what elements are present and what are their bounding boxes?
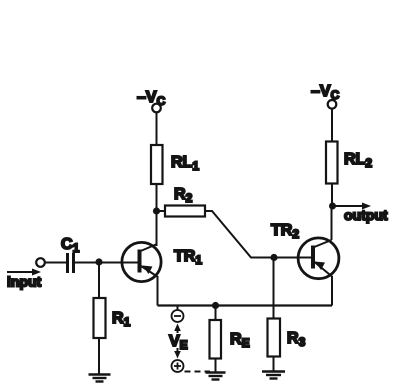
- output arrow: [333, 203, 372, 210]
- wire RL1 to TR1 collector: [156, 184, 158, 246]
- capacitor C1: [68, 253, 74, 273]
- transistor TR1: [122, 242, 161, 281]
- ground R1: [89, 375, 111, 382]
- node junction rail/RE: [212, 302, 219, 309]
- wire TR2 collector up: [331, 206, 333, 240]
- wire -VC to RL1: [156, 112, 158, 145]
- input arrow: [7, 269, 41, 276]
- transistor TR2: [298, 238, 339, 279]
- wire RL2 to -VC right: [331, 109, 333, 142]
- wire VE dashed to RE ground: [185, 371, 211, 373]
- svg-text:input: input: [7, 274, 42, 290]
- wire RE to ground: [215, 359, 217, 373]
- arrow VE up: [174, 324, 181, 334]
- node junction C1/R1: [95, 258, 102, 265]
- node junction RL1/R2: [153, 207, 160, 214]
- battery VE minus terminal: [172, 306, 184, 323]
- wire bottom rail: [158, 304, 333, 306]
- wire input terminal to C1: [45, 262, 66, 264]
- ground RE: [206, 373, 226, 380]
- node -VC right terminal: [328, 100, 337, 109]
- wire R3 to ground: [273, 357, 275, 372]
- wire rail to RE: [215, 306, 217, 321]
- wire TR2 base: [274, 257, 311, 259]
- node junction R2/TR2 base: [270, 254, 277, 261]
- svg-text:output: output: [344, 207, 388, 223]
- resistor R1: [94, 298, 106, 338]
- arrow VE down: [174, 348, 181, 359]
- wire TR2 emitter down: [331, 276, 333, 306]
- wire R1 to ground: [98, 338, 100, 374]
- node input terminal: [36, 258, 45, 267]
- node junction output: [329, 203, 336, 210]
- resistor RL1: [151, 145, 163, 184]
- wire C1 to TR1 base: [75, 262, 138, 264]
- node -VC left terminal: [152, 104, 161, 113]
- wire TR1 emitter down: [157, 276, 159, 306]
- ground R3: [262, 372, 285, 379]
- wire TR2 base to R3: [273, 258, 275, 319]
- resistor R2: [165, 206, 205, 217]
- wire junction to R2: [157, 210, 166, 212]
- resistor RE: [210, 320, 222, 359]
- battery VE plus terminal: [172, 360, 184, 372]
- wire R1 from junction: [98, 262, 100, 298]
- resistor RL2: [326, 142, 338, 184]
- resistor R3: [268, 319, 281, 357]
- wire R2 to TR2 base (diagonal): [205, 211, 274, 258]
- wire output to RL2: [331, 184, 333, 207]
